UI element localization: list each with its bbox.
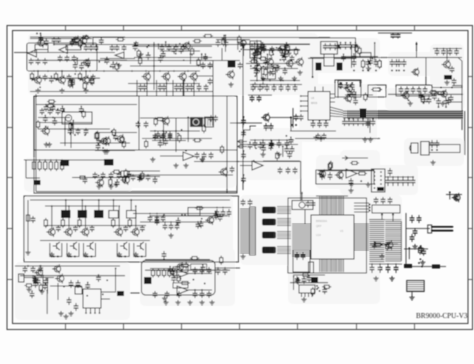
junction dot <box>32 275 34 277</box>
capacitor C86 <box>139 174 144 181</box>
resistor R124 <box>122 140 125 149</box>
capacitor C18 <box>238 62 243 69</box>
capacitor C7 <box>72 55 77 62</box>
capacitor C104 <box>56 225 61 232</box>
box around Q15b <box>335 80 361 97</box>
wire <box>47 279 49 294</box>
wire <box>163 121 165 146</box>
resistor R100 <box>79 39 82 48</box>
ground <box>408 101 413 106</box>
capacitor C25b <box>189 84 194 91</box>
capacitor C132 <box>306 201 311 208</box>
box right with resistor <box>368 85 386 97</box>
capacitor C39 <box>328 43 333 50</box>
background haze <box>28 33 318 95</box>
wire <box>35 94 37 192</box>
U8 fill lines <box>206 118 213 126</box>
feedback loop right <box>191 264 207 270</box>
wire <box>243 46 245 56</box>
wire <box>60 142 130 144</box>
junction dot <box>142 177 144 179</box>
transistor Q18 <box>116 134 125 144</box>
U6 right pins <box>330 93 335 95</box>
comb of resistors R15-R20 <box>32 160 35 171</box>
feedback resistor R1 box <box>35 45 48 50</box>
capacitor C141 <box>410 215 415 223</box>
transistor Q34 <box>411 68 419 77</box>
capacitor C25 <box>185 84 190 91</box>
ground <box>412 244 417 249</box>
capacitor C58 <box>423 87 428 94</box>
capacitor C258 <box>85 283 90 290</box>
capacitor C24b <box>178 84 183 91</box>
capacitor C118 <box>76 280 81 288</box>
resistor R114 <box>436 92 445 95</box>
wire stage cell <box>117 243 129 257</box>
capacitor C247 <box>199 221 204 228</box>
transistor Q4 <box>57 75 66 85</box>
resistor R104 <box>137 49 140 58</box>
wire <box>412 266 446 268</box>
capacitor C213 <box>253 51 258 58</box>
resistor R112 <box>355 44 358 53</box>
op-amp U11 <box>346 169 357 178</box>
resistor R135 <box>123 175 126 184</box>
resistor R117 <box>352 90 355 99</box>
capacitor row C50-C53 right <box>435 49 440 56</box>
junction dot <box>351 88 353 90</box>
capacitor C214 <box>283 52 288 59</box>
wire <box>132 45 212 47</box>
capacitor C221 <box>446 98 451 105</box>
ground <box>228 82 233 87</box>
dark part left of U4 <box>316 63 322 71</box>
capacitor C260 <box>32 276 37 283</box>
capacitor C268 <box>322 287 327 294</box>
transistor Q16 <box>41 126 50 136</box>
capacitor C160 <box>230 166 235 173</box>
memory pin column hatch A <box>369 220 384 262</box>
transistor Q33 <box>219 167 228 177</box>
driver resistor R27 <box>112 218 115 228</box>
capacitor C289 <box>275 65 280 72</box>
wire stub <box>432 91 441 93</box>
capacitor C207 <box>222 35 227 42</box>
wire <box>37 71 39 77</box>
resistor R160 <box>197 58 200 67</box>
caps at J3 top C131 <box>248 199 253 206</box>
resistor R113 <box>421 95 424 104</box>
wire <box>127 174 233 176</box>
ground <box>348 188 353 193</box>
capacitor C230 <box>96 138 101 145</box>
capacitor C127 <box>207 291 212 298</box>
transistor Q31 <box>55 274 64 284</box>
capacitor C279 <box>73 62 78 69</box>
dark part <box>377 187 384 191</box>
junction dot <box>125 179 127 181</box>
capacitor C121 <box>162 251 167 259</box>
right cluster wire <box>433 48 462 50</box>
U12 bottom pins <box>85 308 87 313</box>
capacitor C135 <box>301 252 306 260</box>
ground <box>261 76 266 81</box>
component box U15 <box>311 277 318 283</box>
bus line 1 <box>343 110 463 112</box>
connector loop CN1 <box>241 40 246 45</box>
comb under bus A <box>342 119 347 126</box>
ground <box>59 88 64 93</box>
capacitor C199w <box>209 115 214 122</box>
capacitor row C41 <box>335 44 340 51</box>
ground <box>49 252 54 257</box>
wire <box>230 122 262 124</box>
junction dot <box>269 58 271 60</box>
comb row C170-C176 <box>251 85 256 92</box>
capacitor C91 <box>109 172 114 179</box>
capacitor C102 <box>328 172 333 180</box>
wire <box>40 122 92 124</box>
capacitor C76 <box>96 143 101 150</box>
ground <box>200 157 205 162</box>
ground <box>292 76 297 81</box>
junction dot <box>455 198 457 200</box>
capacitor C72 <box>56 108 61 115</box>
resistor R151 <box>374 243 383 246</box>
feedback resistor R35 <box>180 264 190 267</box>
resistor R120 <box>46 104 55 107</box>
transistor Q10 <box>265 57 274 67</box>
capacitor C201 <box>73 37 78 44</box>
capacitor C2b <box>43 58 48 65</box>
capacitor C114 <box>31 266 36 273</box>
capacitor C5 <box>58 55 63 62</box>
capacitor C177 <box>250 95 255 102</box>
capacitor C81 <box>168 133 173 140</box>
junction dot <box>204 283 206 285</box>
IC U12 box <box>83 289 101 308</box>
feedback loop U13B <box>173 283 188 288</box>
component box U16 <box>299 285 315 293</box>
wire <box>20 275 125 277</box>
hatch wires L6 <box>277 232 291 239</box>
wire <box>411 292 413 296</box>
memory pin column hatch B <box>385 222 401 262</box>
wire <box>369 263 402 265</box>
capacitor C242 <box>258 142 263 149</box>
capacitor C108 <box>140 225 145 232</box>
wire <box>348 157 368 159</box>
junction dot <box>110 66 112 68</box>
caps on loop <box>339 83 344 89</box>
bus dark block RN3 <box>360 109 367 119</box>
capacitor C254 <box>33 281 38 288</box>
wire <box>248 94 272 96</box>
capacitor C199x <box>156 132 161 139</box>
jack J2 <box>117 291 124 296</box>
junction dot <box>102 294 104 296</box>
connector J1 <box>19 274 25 282</box>
junction dots <box>256 80 258 82</box>
resistor R137 <box>109 178 112 187</box>
ground <box>68 311 73 316</box>
junction dot <box>181 129 183 131</box>
capacitor C19 <box>43 74 48 81</box>
wire <box>145 269 230 271</box>
capacitor C77 <box>136 121 141 128</box>
ground <box>96 184 101 189</box>
vertical divider wire <box>242 44 244 190</box>
transistor Q52 <box>254 45 262 54</box>
wire <box>246 63 296 65</box>
diode D2 <box>404 264 412 268</box>
resistor R121 <box>47 100 56 103</box>
capacitor C92 <box>117 172 122 179</box>
wire <box>432 87 462 89</box>
wire <box>464 111 466 155</box>
ground <box>183 163 188 168</box>
loop mark <box>239 140 243 143</box>
capacitor C281 <box>203 54 208 61</box>
transistor Q66 <box>285 59 293 68</box>
junction dot <box>120 256 122 258</box>
wire <box>250 84 302 86</box>
capacitor C167 <box>163 223 168 230</box>
ground <box>168 233 173 238</box>
capacitor C168 <box>169 223 174 230</box>
wire stage cell <box>134 243 146 257</box>
capacitor C250 <box>213 211 218 218</box>
capacitor C275 <box>49 76 54 83</box>
wire stage cell <box>50 243 62 257</box>
wire <box>270 117 292 119</box>
capacitor C245 <box>248 142 253 149</box>
capacitor C125 <box>193 291 198 298</box>
capacitor C291 <box>254 68 259 75</box>
wire down to flat box <box>425 58 427 86</box>
driver resistor R28 <box>128 218 131 228</box>
frame zone ticks left <box>7 77 13 280</box>
junction dot <box>279 59 281 61</box>
resistor R136 <box>112 170 121 173</box>
junction dot <box>85 35 87 37</box>
dark part D4 <box>444 75 452 80</box>
capacitor C239 <box>284 146 289 153</box>
resistor R161 <box>81 36 90 39</box>
ground <box>240 254 245 259</box>
capacitor C287 <box>280 51 285 58</box>
ground <box>138 52 143 57</box>
transistor Q67 <box>253 63 261 72</box>
wire <box>51 206 53 229</box>
resistor R107 <box>279 46 288 49</box>
capacitor C16 <box>216 40 221 47</box>
transistor Q12 <box>344 84 353 94</box>
wire <box>187 117 189 142</box>
top rail right <box>299 38 356 58</box>
capacitor C142 <box>417 215 422 223</box>
capacitor C165 <box>221 209 226 217</box>
capacitor C163 <box>197 84 202 91</box>
op-amp U9 <box>183 152 194 161</box>
wire <box>237 42 239 50</box>
junction dot <box>176 224 178 226</box>
caps above memory C140 <box>388 197 393 204</box>
resistor R165 <box>264 68 267 77</box>
comb under memory C145-C148 <box>370 264 375 273</box>
capacitor C126 <box>200 291 205 298</box>
junction dot <box>98 175 100 177</box>
capacitor C36 <box>253 82 258 89</box>
wire <box>224 35 226 52</box>
transistor Q59 <box>52 264 60 273</box>
capacitor C235 <box>137 175 142 182</box>
wire drop Q9 <box>193 80 195 97</box>
capacitor C113 <box>23 266 28 273</box>
wire <box>250 139 294 141</box>
wire drop <box>172 80 174 96</box>
capacitor C6 <box>65 55 70 62</box>
svg-text:V3: V3 <box>340 229 344 233</box>
vertical feed <box>212 94 214 118</box>
capacitor C204 <box>179 47 184 54</box>
junction dot <box>165 132 167 134</box>
wire up from P1 <box>301 192 303 201</box>
junction dot <box>163 214 165 216</box>
svg-text:QFP: QFP <box>316 224 322 228</box>
junction dot <box>85 205 87 207</box>
capacitor C128 <box>216 267 221 275</box>
junction dot <box>339 178 341 180</box>
capacitor C284 <box>146 53 151 60</box>
junction dot <box>166 83 168 85</box>
transistor Q54 <box>99 137 107 146</box>
junction dot <box>193 83 195 85</box>
transistor Q5 <box>81 75 90 85</box>
capacitor C231 <box>163 139 168 146</box>
wire <box>304 210 306 224</box>
wire <box>74 176 128 178</box>
ground <box>108 184 113 189</box>
driver transistor Q24 <box>114 227 123 237</box>
capacitor C205 <box>133 44 138 51</box>
capacitor C56 <box>411 87 416 94</box>
capacitor C236 <box>83 177 88 184</box>
ground <box>83 252 88 257</box>
junction dot <box>177 133 179 135</box>
input wire <box>14 52 115 54</box>
wire emitter bus <box>130 65 213 67</box>
wire <box>45 205 118 207</box>
wire <box>216 39 250 41</box>
relay K1 box <box>190 117 203 127</box>
wire <box>284 47 286 57</box>
dual op-amp block U13 outline <box>142 261 216 296</box>
bus taps hatch <box>348 110 460 119</box>
resistor R140 <box>320 170 323 179</box>
capacitor C120 <box>74 303 79 311</box>
junction dot <box>146 46 148 48</box>
resistor R153 <box>418 246 421 255</box>
capacitor C89 <box>93 172 98 179</box>
svg-text:BR9000A: BR9000A <box>316 219 327 223</box>
capacitor C199v <box>213 115 218 122</box>
capacitor C215 <box>284 43 289 50</box>
capacitor C54 <box>399 87 404 94</box>
capacitor C274 <box>89 78 94 85</box>
bus fan-in <box>330 107 343 111</box>
op-amp U13B <box>177 286 188 295</box>
J5 pins dots <box>374 171 376 173</box>
component box U3 <box>250 41 261 58</box>
wire drop Q7 <box>166 80 168 97</box>
resistor R163 <box>294 47 297 56</box>
capacitor C35 <box>290 55 295 62</box>
junction dot <box>98 61 100 63</box>
dark component RN2 <box>104 159 114 166</box>
capacitor C282 <box>158 56 163 63</box>
transistor Q11 <box>295 57 304 67</box>
junction dots <box>27 265 29 267</box>
capacitor row C12-C15 <box>160 45 165 52</box>
junction dot <box>106 279 108 281</box>
driver resistor R25 <box>61 218 64 228</box>
capacitor C23b <box>162 84 167 91</box>
wire <box>30 70 200 72</box>
wire <box>76 58 78 64</box>
junction dot <box>148 45 150 47</box>
op-amp U2 triangle <box>115 52 124 59</box>
wire loop to border <box>429 145 460 153</box>
junction dot <box>253 160 255 162</box>
wire <box>36 104 137 106</box>
capacitor C55 <box>405 87 410 94</box>
capacitor C78 <box>144 121 149 128</box>
caps on rail C10d <box>122 45 127 51</box>
junction dot <box>179 43 181 45</box>
junction dots <box>418 262 420 264</box>
wire <box>152 140 186 142</box>
junction dots <box>440 87 442 89</box>
capacitor C116 <box>44 278 49 285</box>
left pin header column J3 <box>250 207 256 255</box>
junction dots <box>154 130 156 132</box>
resistor R148 <box>301 273 310 276</box>
capacitor C69 <box>366 120 371 128</box>
frame zone ticks bottom <box>66 324 415 330</box>
capacitor C199z <box>168 132 173 139</box>
wire <box>165 42 167 48</box>
resistor R134 <box>124 169 127 178</box>
capacitor C259 <box>43 283 48 290</box>
capacitor C71 <box>48 108 53 115</box>
caps on rail C3 <box>84 45 89 51</box>
choke L3 <box>94 210 104 218</box>
wire <box>101 291 116 293</box>
transistor Q53 <box>401 91 409 100</box>
junction dot <box>355 56 357 58</box>
capacitor C240 <box>289 137 294 144</box>
wire <box>38 128 110 130</box>
wire <box>85 71 87 77</box>
right vertical wire <box>433 58 462 131</box>
capacitor C48 <box>450 66 455 73</box>
feedback wires <box>34 45 36 53</box>
dark component RN1 <box>61 160 70 166</box>
caps-in-box above U4 <box>321 42 338 55</box>
junction dot <box>193 279 195 281</box>
wire <box>300 161 302 200</box>
